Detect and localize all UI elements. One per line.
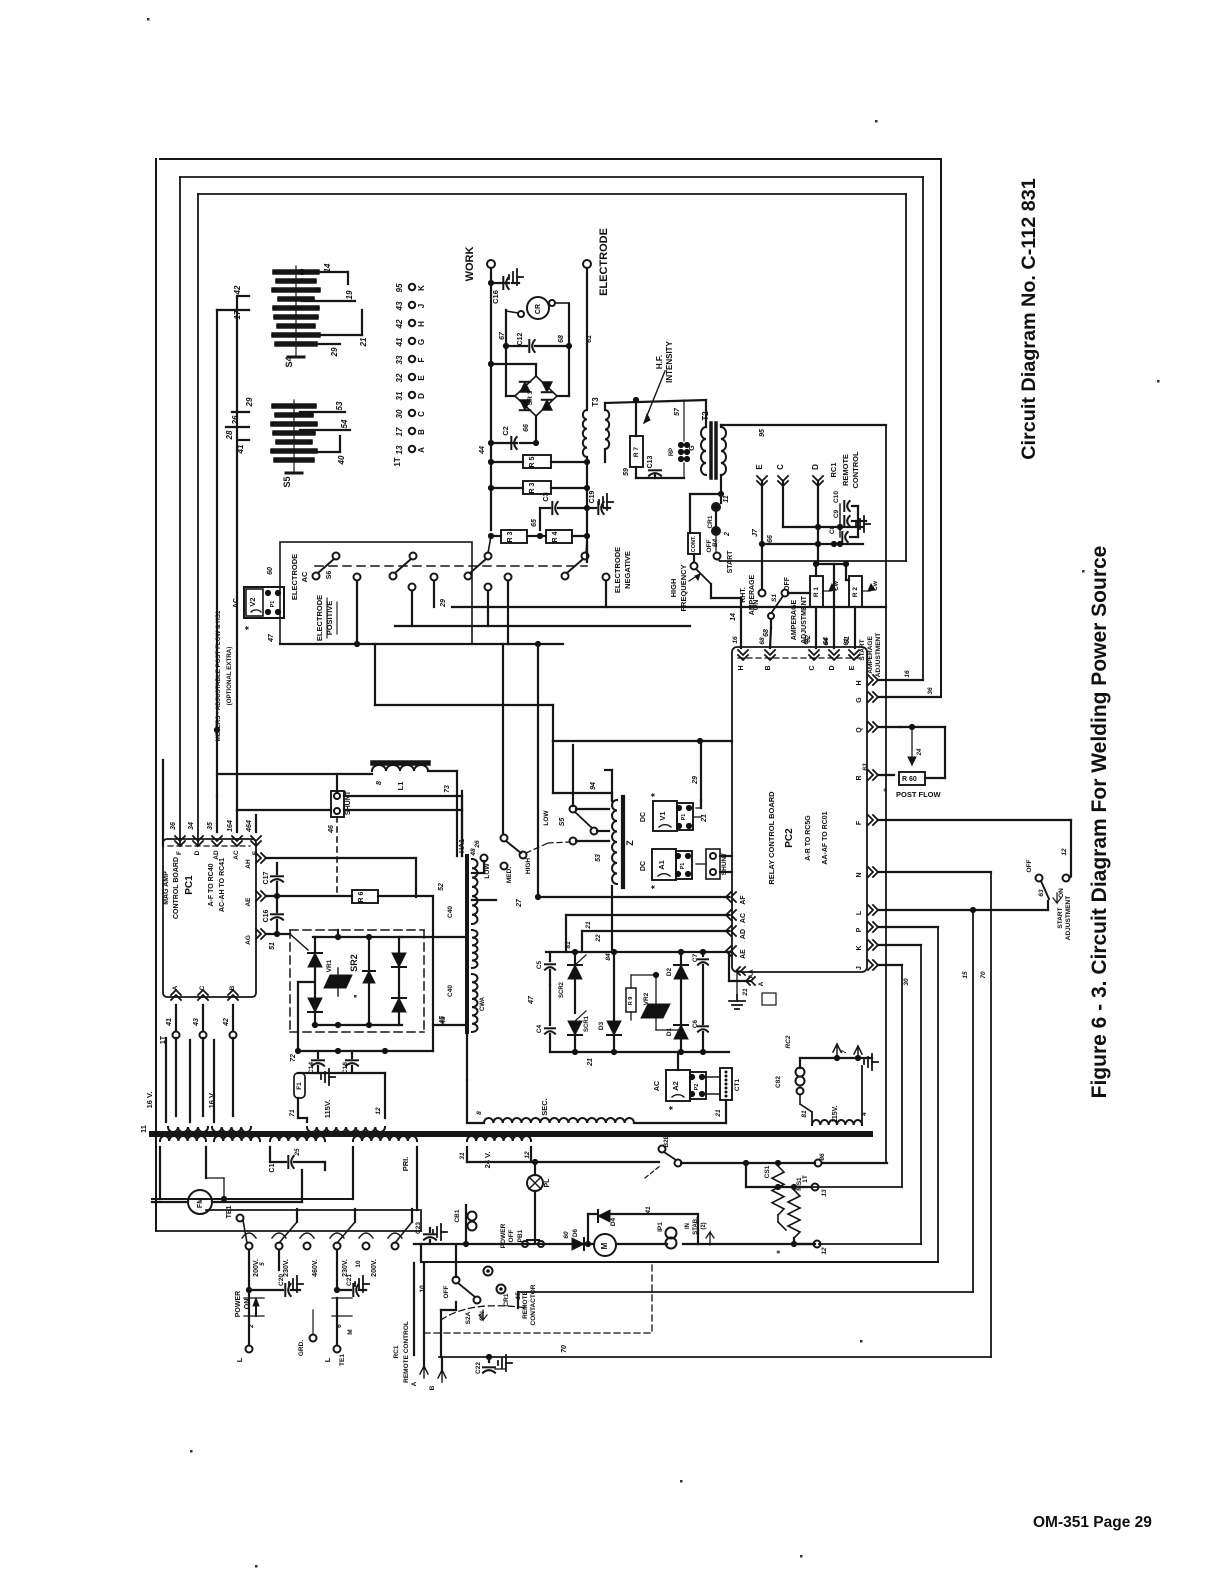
svg-text:67: 67	[499, 331, 506, 340]
svg-text:WORK: WORK	[464, 247, 476, 282]
svg-text:C16: C16	[263, 909, 270, 922]
svg-text:A: A	[411, 1381, 418, 1386]
svg-text:200V.: 200V.	[253, 1259, 260, 1277]
svg-text:ON: ON	[244, 1299, 251, 1310]
svg-text:S6: S6	[326, 571, 333, 580]
svg-text:C40: C40	[447, 906, 454, 918]
svg-text:53: 53	[335, 401, 344, 410]
svg-text:G: G	[856, 697, 863, 703]
svg-text:S2A: S2A	[465, 1311, 472, 1324]
svg-text:ELECTRODE: ELECTRODE	[315, 595, 324, 641]
svg-text:L: L	[323, 1357, 332, 1362]
svg-text:S1: S1	[771, 594, 778, 602]
svg-text:CONTACTOR: CONTACTOR	[530, 1284, 537, 1325]
svg-text:STAB.: STAB.	[693, 1217, 699, 1235]
svg-text:C16: C16	[491, 290, 500, 304]
svg-text:41: 41	[166, 1018, 173, 1027]
svg-text:31: 31	[459, 1152, 466, 1160]
svg-text:64: 64	[823, 638, 830, 646]
svg-text:70: 70	[561, 1345, 568, 1353]
svg-text:36: 36	[170, 822, 177, 830]
svg-text:DC: DC	[640, 812, 647, 822]
svg-text:P1: P1	[681, 814, 687, 821]
svg-text:R 9: R 9	[628, 997, 634, 1006]
svg-text:L: L	[856, 910, 863, 915]
svg-text:MAG AMP: MAG AMP	[163, 871, 170, 905]
svg-text:F: F	[856, 820, 863, 825]
svg-text:8: 8	[376, 781, 383, 785]
svg-text:12: 12	[375, 1107, 382, 1115]
svg-text:OFF: OFF	[784, 576, 791, 591]
svg-text:SR2: SR2	[349, 954, 359, 972]
svg-text:21: 21	[587, 1058, 594, 1067]
svg-text:30: 30	[395, 409, 404, 418]
svg-text:C: C	[809, 665, 816, 670]
svg-text:HIGH: HIGH	[669, 579, 678, 598]
svg-text:R 60: R 60	[902, 776, 917, 783]
svg-text:VR1: VR1	[326, 959, 333, 972]
svg-text:AD: AD	[213, 850, 220, 860]
svg-text:36: 36	[927, 687, 934, 695]
svg-text:41: 41	[236, 444, 245, 454]
svg-text:M: M	[600, 1242, 609, 1249]
svg-text:H: H	[417, 321, 426, 327]
svg-text:K: K	[856, 945, 863, 950]
svg-text:72: 72	[290, 1054, 297, 1062]
svg-text:E: E	[849, 665, 856, 670]
svg-text:AF: AF	[740, 895, 747, 905]
svg-text:16: 16	[732, 636, 739, 644]
svg-text:POWER: POWER	[500, 1223, 507, 1248]
svg-text:57: 57	[674, 407, 681, 416]
svg-text:B: B	[765, 665, 772, 670]
svg-text:C: C	[199, 985, 206, 990]
svg-text:164: 164	[227, 820, 234, 832]
svg-text:(2): (2)	[701, 1222, 707, 1229]
svg-text:21: 21	[742, 988, 749, 997]
svg-text:C6: C6	[692, 1019, 699, 1028]
svg-text:13: 13	[821, 1189, 828, 1197]
svg-text:CWA: CWA	[480, 996, 486, 1011]
svg-text:35: 35	[207, 822, 214, 830]
svg-text:ON: ON	[1058, 888, 1065, 898]
svg-text:81: 81	[801, 1110, 808, 1118]
svg-text:OFF: OFF	[508, 1229, 515, 1242]
svg-text:95: 95	[395, 283, 404, 292]
svg-text:F: F	[176, 851, 183, 855]
svg-text:CONT.: CONT.	[691, 535, 697, 552]
svg-text:R 6: R 6	[358, 891, 365, 902]
svg-text:G: G	[689, 445, 696, 451]
svg-text:31: 31	[395, 391, 404, 400]
svg-text:IP1: IP1	[657, 1222, 664, 1232]
svg-text:62: 62	[803, 637, 810, 645]
svg-text:V1: V1	[658, 811, 667, 820]
svg-text:94: 94	[590, 782, 597, 790]
svg-text:AG: AG	[245, 935, 252, 945]
svg-text:SCR2: SCR2	[559, 981, 565, 998]
svg-text:REMOTE CONTROL: REMOTE CONTROL	[403, 1321, 410, 1383]
svg-text:17: 17	[233, 310, 242, 319]
svg-text:51: 51	[269, 942, 276, 950]
svg-text:1T: 1T	[393, 457, 402, 466]
svg-text:29: 29	[440, 599, 447, 608]
svg-text:AC: AC	[740, 913, 747, 923]
svg-text:C: C	[776, 464, 785, 470]
svg-text:PL: PL	[544, 1178, 551, 1188]
svg-text:RP: RP	[669, 448, 675, 456]
svg-text:M: M	[347, 1329, 354, 1334]
svg-text:OM-351 Page 29: OM-351 Page 29	[1033, 1514, 1152, 1531]
svg-text:G: G	[417, 339, 426, 345]
svg-text:D: D	[811, 464, 820, 470]
svg-text:*: *	[650, 885, 661, 889]
svg-text:A: A	[758, 981, 765, 986]
svg-text:42: 42	[395, 319, 404, 329]
svg-text:12: 12	[524, 1151, 531, 1159]
svg-text:D3: D3	[598, 1021, 605, 1030]
svg-text:L1: L1	[396, 782, 405, 791]
svg-text:29: 29	[245, 397, 254, 407]
svg-text:53: 53	[595, 854, 602, 862]
svg-text:68: 68	[763, 629, 770, 637]
svg-text:12: 12	[1061, 848, 1068, 856]
svg-text:AMPERAGE: AMPERAGE	[749, 574, 756, 615]
svg-text:CR1: CR1	[707, 515, 714, 528]
svg-text:ELECTRODE: ELECTRODE	[613, 547, 622, 593]
svg-text:1T: 1T	[802, 1175, 809, 1183]
svg-text:PC1: PC1	[184, 875, 195, 895]
svg-text:AE: AE	[245, 897, 252, 907]
svg-text:17: 17	[395, 427, 404, 436]
svg-text:41: 41	[645, 1206, 652, 1215]
svg-text:POWER: POWER	[235, 1291, 242, 1317]
svg-text:460V.: 460V.	[312, 1259, 319, 1277]
svg-text:24: 24	[917, 748, 923, 756]
svg-text:P: P	[856, 927, 863, 932]
svg-text:33: 33	[395, 355, 404, 364]
svg-text:84: 84	[605, 953, 612, 961]
svg-text:*: *	[244, 626, 255, 630]
svg-text:22: 22	[595, 934, 602, 943]
svg-text:AC: AC	[654, 1081, 661, 1091]
svg-text:*: *	[668, 1106, 679, 1110]
svg-text:C10: C10	[833, 491, 840, 503]
svg-text:44: 44	[479, 446, 486, 455]
svg-text:SCR1: SCR1	[584, 1015, 590, 1032]
svg-text:10: 10	[355, 1260, 362, 1268]
svg-text:27: 27	[516, 898, 523, 908]
svg-text:CONTROL: CONTROL	[851, 451, 860, 488]
svg-text:RELAY CONTROL BOARD: RELAY CONTROL BOARD	[767, 791, 776, 885]
svg-text:ELECTRODE: ELECTRODE	[598, 228, 610, 296]
svg-text:46: 46	[328, 825, 335, 834]
svg-text:S4: S4	[284, 356, 294, 367]
svg-text:A2: A2	[671, 1081, 680, 1091]
svg-text:PC2: PC2	[784, 828, 795, 848]
svg-text:GRD.: GRD.	[298, 1340, 305, 1356]
svg-text:AC: AC	[300, 571, 309, 582]
svg-text:B4: B4	[712, 538, 719, 547]
svg-text:PRI.: PRI.	[401, 1157, 410, 1172]
svg-text:RC2: RC2	[785, 1035, 792, 1048]
svg-text:R 1: R 1	[813, 587, 820, 598]
svg-text:CR1: CR1	[503, 1293, 510, 1306]
svg-text:C1: C1	[269, 1163, 276, 1172]
svg-text:24 V.: 24 V.	[483, 1152, 492, 1169]
svg-text:C40: C40	[447, 985, 454, 997]
svg-text:59: 59	[623, 468, 630, 476]
svg-text:C18: C18	[342, 1062, 349, 1074]
svg-text:8: 8	[476, 1111, 483, 1115]
svg-text:14: 14	[730, 613, 737, 621]
svg-text:D6: D6	[572, 1228, 579, 1236]
svg-text:TE1: TE1	[226, 1205, 233, 1218]
svg-text:A-R TO RC5G: A-R TO RC5G	[805, 815, 812, 861]
svg-text:C17: C17	[263, 871, 270, 884]
svg-text:AC: AC	[233, 850, 240, 860]
svg-text:PB1: PB1	[517, 1229, 524, 1242]
svg-text:464: 464	[246, 820, 253, 833]
svg-text:LOW: LOW	[543, 810, 550, 826]
svg-text:AE: AE	[740, 949, 747, 959]
svg-text:115V.: 115V.	[323, 1100, 332, 1119]
svg-text:52: 52	[438, 883, 445, 891]
svg-text:ADJUSTMENT: ADJUSTMENT	[875, 633, 882, 677]
svg-text:*: *	[775, 1250, 785, 1254]
svg-text:CONTROL BOARD: CONTROL BOARD	[173, 857, 180, 919]
svg-text:OFF: OFF	[1026, 859, 1033, 872]
svg-text:13: 13	[395, 445, 404, 454]
svg-text:70: 70	[980, 971, 987, 979]
svg-text:65: 65	[531, 519, 538, 527]
svg-text:CR: CR	[535, 304, 542, 314]
svg-text:21: 21	[585, 921, 592, 930]
svg-text:F: F	[417, 357, 426, 362]
svg-text:25: 25	[294, 1148, 301, 1157]
svg-text:P1: P1	[270, 601, 276, 608]
svg-text:A: A	[417, 447, 426, 453]
svg-text:B2B: B2B	[663, 1134, 670, 1147]
svg-text:E: E	[755, 464, 764, 470]
svg-text:42: 42	[223, 1018, 230, 1027]
svg-text:AMPERAGE: AMPERAGE	[867, 636, 874, 674]
svg-text:POSITIVE: POSITIVE	[325, 601, 334, 636]
svg-text:5: 5	[259, 1262, 266, 1266]
svg-text:C9: C9	[833, 509, 840, 518]
svg-text:NEGATIVE: NEGATIVE	[623, 551, 632, 589]
svg-text:T3: T3	[591, 397, 600, 407]
svg-text:R 3: R 3	[507, 531, 514, 542]
svg-text:V2: V2	[248, 597, 257, 606]
svg-text:86: 86	[819, 1153, 826, 1161]
svg-text:47: 47	[268, 633, 275, 643]
svg-text:INTENSITY: INTENSITY	[665, 340, 674, 382]
svg-text:R 3: R 3	[529, 482, 536, 493]
svg-text:48: 48	[470, 848, 477, 857]
svg-text:R 5: R 5	[529, 456, 536, 467]
svg-text:AH: AH	[245, 859, 252, 869]
svg-text:DC: DC	[640, 861, 647, 871]
svg-text:28: 28	[225, 430, 234, 440]
svg-text:P1: P1	[680, 863, 686, 870]
svg-text:*: *	[650, 793, 661, 797]
svg-text:RC1: RC1	[393, 1345, 400, 1358]
svg-text:66: 66	[523, 424, 530, 432]
svg-text:Figure 6 - 3. Circuit Diagram: Figure 6 - 3. Circuit Diagram For Weldin…	[1088, 546, 1111, 1099]
svg-text:TE1: TE1	[339, 1354, 346, 1366]
svg-text:Cw: Cw	[872, 580, 879, 591]
svg-text:63: 63	[1038, 889, 1045, 897]
svg-text:D4: D4	[610, 1217, 617, 1226]
svg-text:C12: C12	[517, 332, 524, 345]
svg-text:68: 68	[558, 335, 565, 343]
svg-text:C: C	[417, 411, 426, 417]
svg-text:SEC.: SEC.	[540, 1098, 549, 1116]
svg-text:REMOTE: REMOTE	[522, 1290, 529, 1318]
svg-text:11: 11	[139, 1125, 148, 1133]
svg-text:R 2: R 2	[852, 587, 859, 598]
svg-text:B: B	[417, 429, 426, 435]
svg-text:C20: C20	[278, 1274, 285, 1286]
svg-text:CB1: CB1	[454, 1209, 461, 1222]
svg-text:D: D	[194, 850, 201, 855]
svg-text:43: 43	[395, 301, 404, 311]
svg-text:H: H	[738, 665, 745, 670]
svg-text:ADJUSTMENT: ADJUSTMENT	[1065, 896, 1072, 940]
svg-text:J7: J7	[752, 528, 759, 537]
svg-text:C7: C7	[692, 953, 699, 962]
svg-text:6: 6	[336, 1324, 343, 1328]
svg-text:C8: C8	[829, 525, 836, 534]
svg-text:73: 73	[444, 785, 451, 793]
svg-text:54: 54	[340, 419, 349, 428]
svg-text:200V.: 200V.	[371, 1259, 378, 1277]
svg-text:CT1: CT1	[734, 1078, 741, 1091]
svg-text:12: 12	[821, 1247, 828, 1255]
svg-text:21: 21	[715, 1109, 722, 1118]
svg-text:SHUNT: SHUNT	[345, 790, 352, 815]
svg-text:66: 66	[767, 535, 774, 543]
svg-text:115V.: 115V.	[832, 1105, 839, 1122]
svg-text:C82: C82	[775, 1076, 782, 1088]
svg-text:METERS - ADJUSTABLE POST FLOW: METERS - ADJUSTABLE POST FLOW & HS1	[215, 610, 222, 741]
svg-text:60: 60	[267, 567, 274, 575]
svg-text:63: 63	[862, 763, 869, 771]
svg-text:34: 34	[188, 822, 195, 830]
svg-text:L: L	[235, 1357, 244, 1362]
svg-text:H: H	[856, 680, 863, 685]
svg-text:MED.: MED.	[506, 867, 513, 883]
svg-text:C4: C4	[536, 1024, 543, 1033]
svg-text:2: 2	[248, 1324, 255, 1329]
svg-text:C3: C3	[541, 492, 550, 502]
svg-text:N: N	[856, 872, 863, 877]
svg-text:POST FLOW: POST FLOW	[896, 790, 942, 799]
svg-text:P2: P2	[694, 1084, 700, 1091]
svg-text:B: B	[429, 1385, 436, 1390]
svg-text:H.F.: H.F.	[655, 355, 664, 369]
svg-text:30: 30	[903, 978, 910, 986]
svg-text:C13: C13	[647, 455, 654, 468]
svg-text:61: 61	[843, 638, 850, 646]
svg-text:29: 29	[330, 347, 339, 357]
svg-text:Z: Z	[625, 840, 635, 846]
svg-text:AC-AH TO RC41: AC-AH TO RC41	[219, 858, 226, 912]
svg-text:J: J	[856, 966, 863, 970]
svg-text:4: 4	[861, 1112, 868, 1117]
svg-text:A: A	[172, 985, 179, 990]
svg-text:REMOTE: REMOTE	[841, 454, 850, 486]
svg-text:81: 81	[565, 941, 572, 949]
svg-text:29: 29	[692, 776, 699, 785]
svg-text:11: 11	[723, 495, 730, 502]
svg-text:16 V.: 16 V.	[145, 1092, 154, 1109]
svg-text:43: 43	[193, 1018, 200, 1027]
svg-text:40: 40	[337, 455, 346, 465]
svg-text:HIGH: HIGH	[525, 858, 532, 875]
svg-text:41: 41	[395, 337, 404, 347]
svg-text:ELECTRODE: ELECTRODE	[290, 554, 299, 600]
svg-text:R 7: R 7	[633, 447, 640, 458]
svg-text:(OPTIONAL EXTRA): (OPTIONAL EXTRA)	[226, 647, 233, 706]
svg-text:VR2: VR2	[643, 992, 650, 1005]
svg-text:AA-AF TO RC01: AA-AF TO RC01	[822, 811, 829, 864]
svg-text:START: START	[1057, 907, 1064, 928]
svg-text:D1: D1	[666, 1027, 673, 1036]
svg-text:K: K	[417, 285, 426, 291]
svg-text:S5: S5	[282, 476, 292, 487]
svg-text:C14: C14	[308, 1062, 315, 1074]
svg-text:R: R	[856, 775, 863, 780]
svg-text:2: 2	[724, 532, 731, 537]
svg-text:19: 19	[345, 290, 354, 299]
svg-text:15: 15	[962, 971, 969, 979]
svg-text:START: START	[727, 550, 734, 574]
svg-text:16: 16	[904, 670, 911, 678]
svg-text:SR 3: SR 3	[527, 390, 534, 405]
svg-text:B: B	[229, 985, 236, 990]
svg-text:C2: C2	[501, 426, 510, 436]
svg-text:J: J	[417, 304, 426, 308]
svg-text:AMPERAGE: AMPERAGE	[791, 599, 798, 640]
svg-text:OFF: OFF	[443, 1285, 450, 1298]
svg-text:C19: C19	[589, 490, 596, 503]
svg-text:RHT.: RHT.	[740, 587, 747, 603]
svg-text:60: 60	[563, 1231, 570, 1239]
svg-text:D2: D2	[666, 967, 673, 976]
svg-text:21: 21	[701, 814, 708, 823]
svg-text:RC1: RC1	[829, 462, 838, 477]
svg-text:68: 68	[759, 637, 766, 645]
svg-text:D: D	[417, 393, 426, 399]
svg-text:42: 42	[233, 285, 242, 295]
svg-text:C22: C22	[475, 1362, 482, 1374]
svg-text:C23: C23	[415, 1222, 422, 1234]
svg-text:71: 71	[289, 1109, 296, 1117]
svg-text:*: *	[882, 788, 892, 792]
svg-text:AC: AC	[233, 598, 240, 608]
svg-text:14: 14	[323, 263, 332, 272]
svg-text:E: E	[417, 375, 426, 381]
svg-text:95: 95	[759, 429, 766, 437]
svg-text:61: 61	[586, 335, 593, 343]
svg-text:26: 26	[474, 840, 481, 849]
svg-text:A1: A1	[657, 860, 666, 870]
svg-text:AD: AD	[740, 929, 747, 939]
svg-text:FREQUENCY: FREQUENCY	[679, 564, 688, 611]
svg-text:IN: IN	[685, 1223, 691, 1229]
